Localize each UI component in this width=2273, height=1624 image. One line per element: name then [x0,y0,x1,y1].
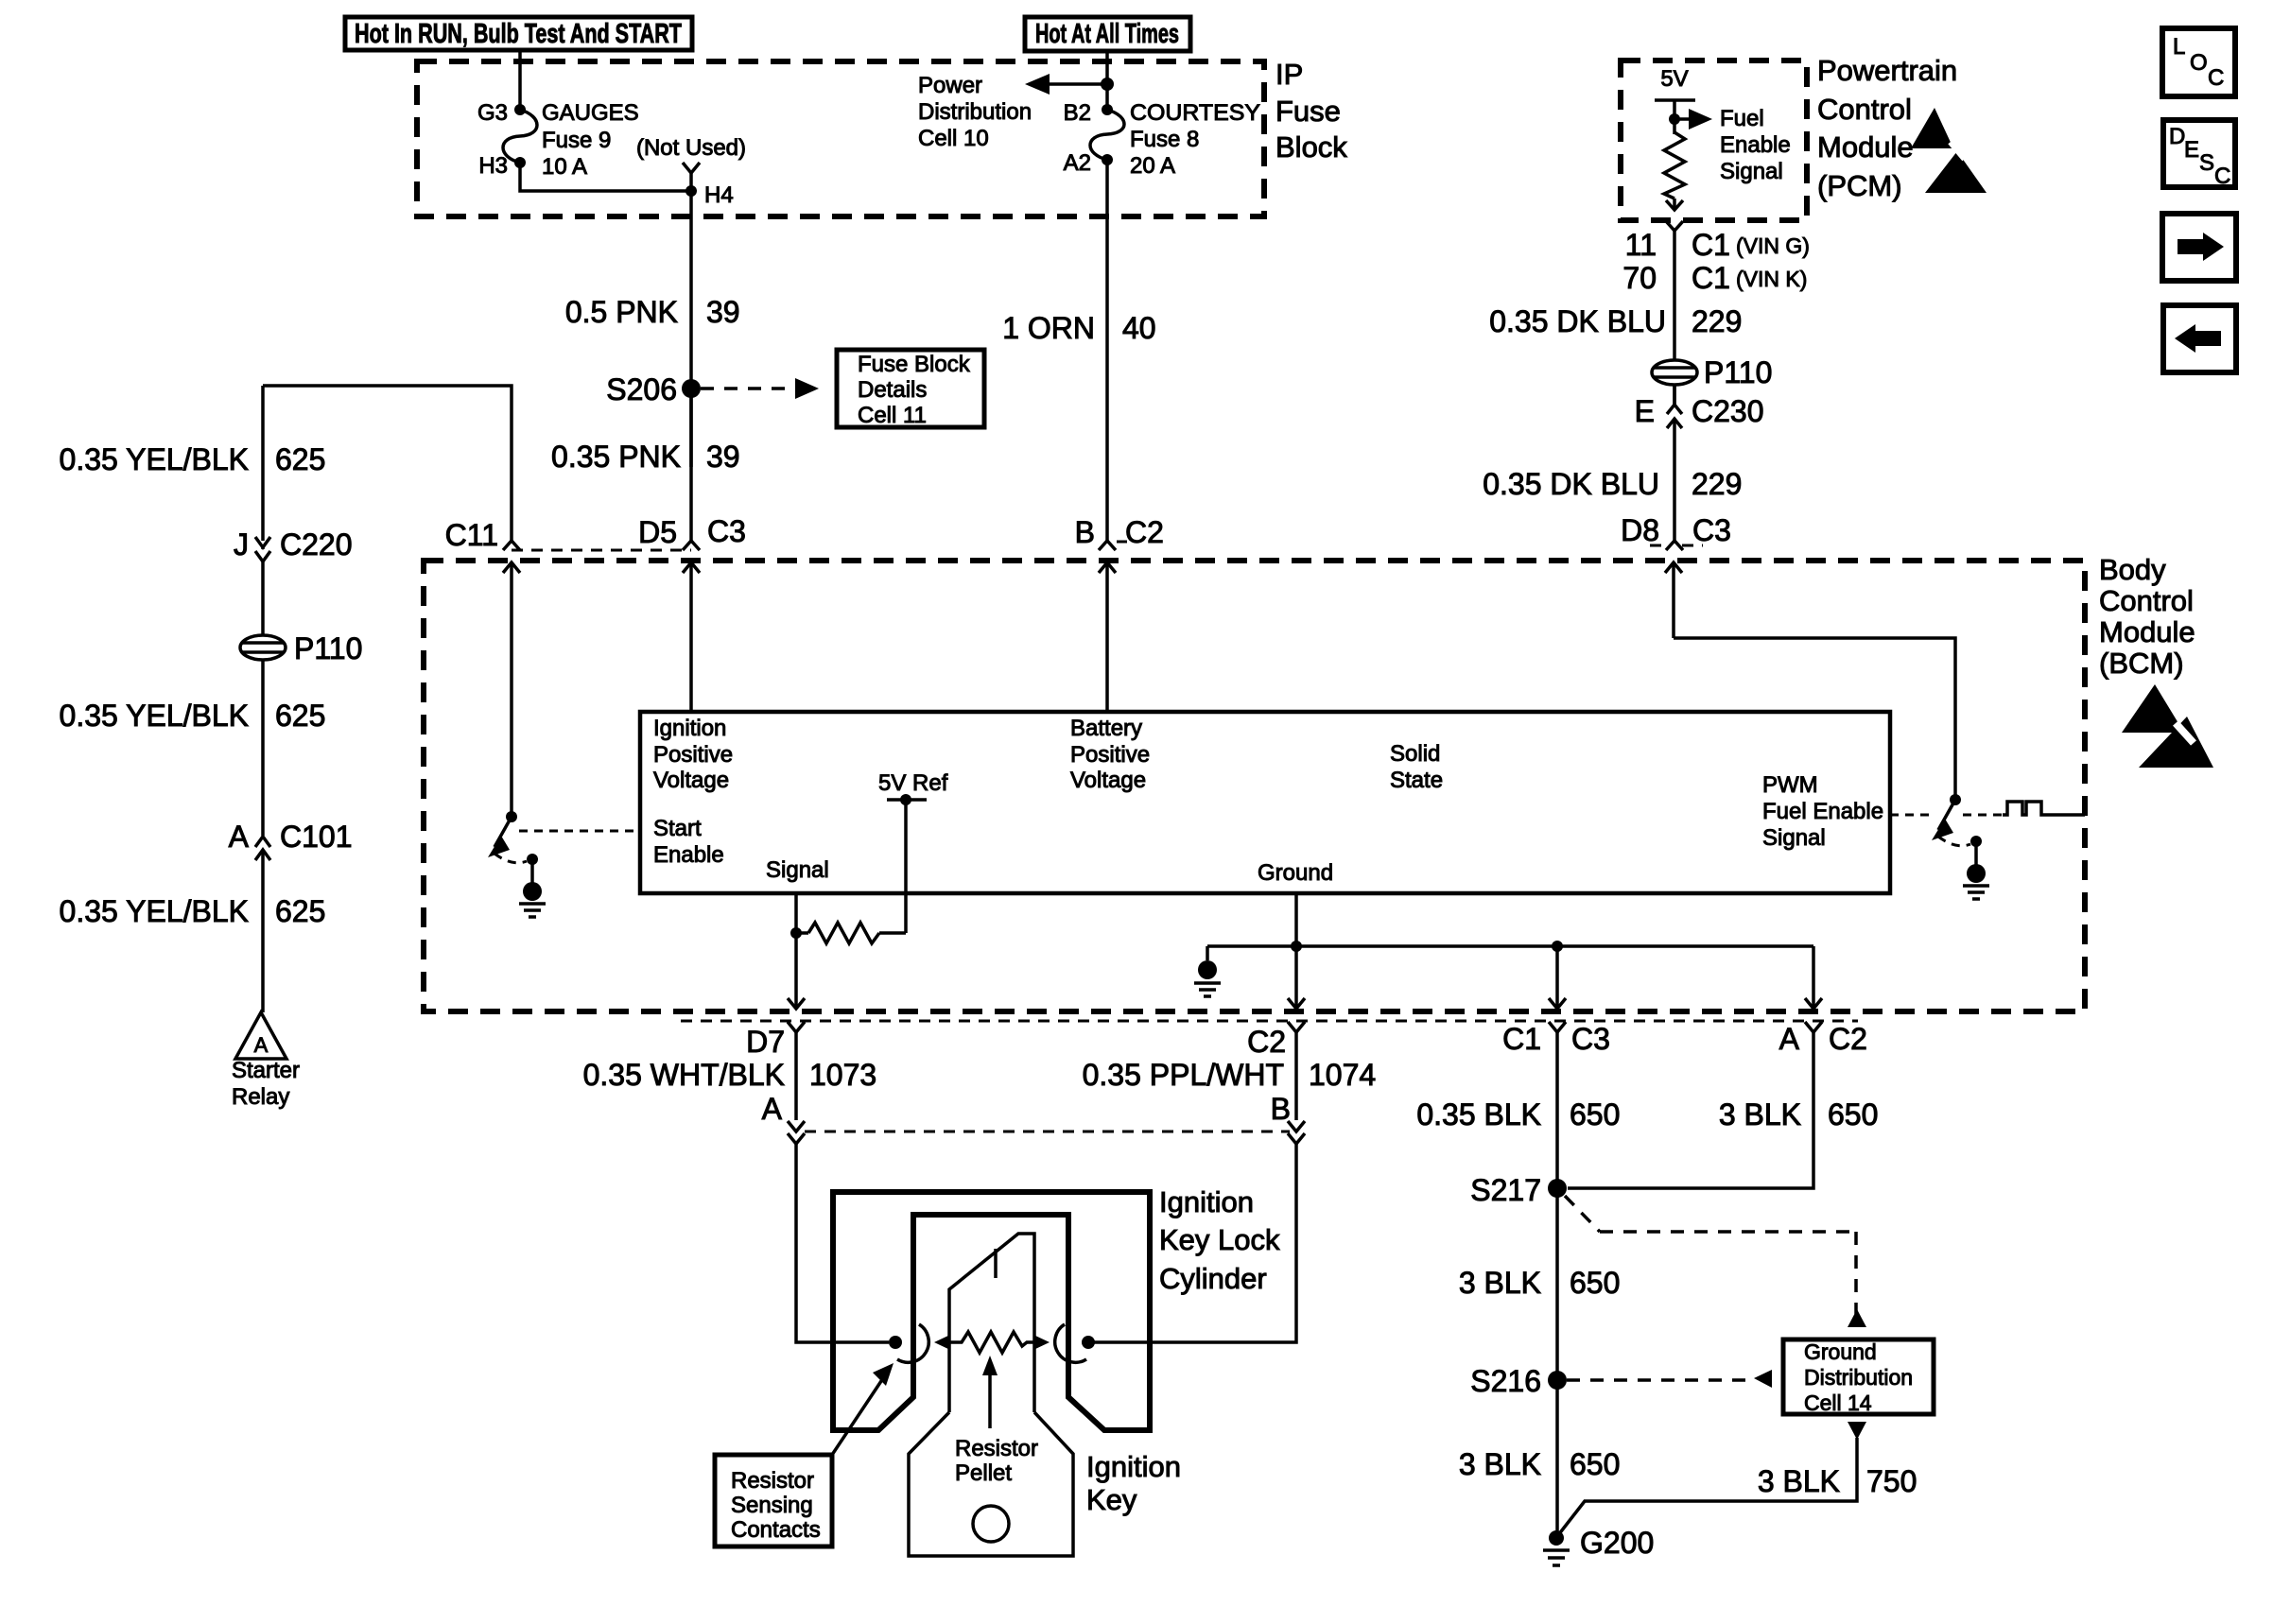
svg-text:Resistor: Resistor [731,1468,814,1494]
svg-text:1073: 1073 [809,1058,876,1092]
resistor signal pull-up [808,923,879,943]
label Resistor Pellet [955,1436,1038,1486]
wire ground pin down [1294,893,1298,1008]
svg-text:Details: Details [858,377,927,403]
grommet P110 left [240,635,286,660]
wire from H3 to H4 junction [520,163,691,191]
wire from Hot In RUN box to fuse 9 terminal G3 [518,50,522,110]
switch start enable [488,811,538,865]
leader S216 to ground distribution [1567,1370,1772,1388]
wire label 3 BLK 650 bottom [1459,1447,1621,1481]
connector fork B [1288,1133,1305,1144]
wire arrow into BCM at D8 [1665,562,1682,638]
wire signal pin down [794,893,798,1008]
svg-text:Module: Module [2099,615,2195,648]
svg-text:Ignition: Ignition [1159,1185,1254,1218]
wire B to contact [1094,1144,1296,1342]
header box: Hot At All Times [1025,17,1190,51]
svg-text:3 BLK: 3 BLK [1459,1266,1541,1300]
wire D8 to PWM switch [1674,638,1955,800]
svg-text:Cell 11: Cell 11 [858,403,927,428]
svg-text:(PCM): (PCM) [1817,169,1902,202]
svg-text:B2: B2 [1064,100,1091,126]
svg-text:C3: C3 [1571,1022,1610,1056]
connector line C3 thin dashed [512,549,691,552]
svg-text:C101: C101 [280,820,353,854]
connector fork A [788,1133,805,1144]
ESD symbol PCM [1911,108,1987,193]
wire 1 ORN from A2 to B [1105,160,1109,541]
wire 3 BLK from A to S217 [1568,1032,1813,1188]
splice S206 [682,379,701,398]
header box: Hot In RUN, Bulb Test And START [345,17,692,50]
arrow resistor pellet pointer [982,1356,998,1428]
connector fork A C2 [1805,1022,1822,1032]
label Start Enable [653,816,724,868]
svg-text:Block: Block [1275,130,1347,164]
wire P110 to C101 [261,659,265,836]
svg-text:Control: Control [2099,584,2194,617]
svg-text:C: C [2208,65,2224,91]
svg-text:O: O [2190,50,2208,76]
wire arrow Fuel Enable Signal [1674,109,1712,130]
fuse F9 GAUGES 10A [503,104,537,168]
svg-text:S217: S217 [1470,1173,1541,1207]
wire label 0.35 BLK 650 [1416,1097,1620,1132]
svg-text:39: 39 [706,295,740,329]
connector line below BCM thin dashed [681,1020,1858,1023]
svg-text:Ground: Ground [1804,1339,1877,1364]
svg-text:3 BLK: 3 BLK [1459,1447,1541,1481]
control dashed start enable [519,830,640,833]
PCM dashed box [1621,60,1807,220]
BCM solid state box [640,712,1890,893]
svg-text:Ground: Ground [1258,860,1333,886]
connector fork B [1099,541,1116,550]
contact dot A side [889,1336,902,1349]
svg-text:A: A [762,1092,783,1126]
wire 0.5 PNK from H4 to S206 [689,191,693,467]
label Ignition Key [1086,1450,1181,1516]
svg-text:0.35 DK BLU: 0.35 DK BLU [1483,467,1659,501]
5V Ref bar [887,798,927,802]
label Ignition Positive Voltage [653,716,733,793]
contact dot B side [1082,1336,1095,1349]
label Body Control Module (BCM) [2099,553,2195,680]
nav icon DESC [2163,120,2235,189]
svg-text:650: 650 [1828,1097,1878,1132]
ESD symbol BCM [2122,684,2213,768]
svg-text:Hot In RUN, Bulb Test And STAR: Hot In RUN, Bulb Test And START [355,19,682,49]
svg-text:Distribution: Distribution [918,99,1032,125]
pin label D5 C3 [638,514,746,549]
resistor pellet [950,1332,1033,1353]
ground G200 [1543,1530,1570,1565]
svg-text:Control: Control [1817,93,1912,126]
nav icon arrow left [2163,305,2236,372]
svg-text:C1: C1 [1692,228,1730,262]
svg-text:S: S [2199,150,2214,176]
label Ignition Key Lock Cylinder [1159,1185,1280,1295]
PWM waveform [2003,802,2085,815]
svg-text:G3: G3 [477,100,508,126]
svg-text:D8: D8 [1621,513,1659,547]
pin label A C2 [1779,1022,1867,1056]
svg-text:C1: C1 [1692,261,1730,295]
svg-text:C2: C2 [1247,1025,1286,1059]
BCM dashed box [424,561,2085,1011]
svg-text:0.35 BLK: 0.35 BLK [1416,1097,1541,1132]
arrow ground at BCM edge [1288,998,1305,1009]
pin label 11 C1 (VIN G) [1625,228,1810,262]
svg-text:Ignition: Ignition [1086,1450,1181,1483]
5V supply bar [1655,98,1695,102]
svg-text:P110: P110 [294,631,362,665]
wire 0.35 PPL/WHT [1294,1032,1298,1120]
wire label 0.35 DK BLU 229 lower [1483,467,1742,501]
svg-text:1 ORN: 1 ORN [1002,311,1095,345]
label Powertrain Control Module (PCM) [1817,54,1957,202]
svg-text:11: 11 [1625,228,1657,262]
svg-text:(VIN G): (VIN G) [1736,233,1810,258]
svg-text:S206: S206 [606,372,677,406]
svg-text:C2: C2 [1125,515,1164,549]
wire A drop inside BCM [1812,946,1815,1008]
nav icon LOC [2162,28,2235,96]
svg-text:0.35 PNK: 0.35 PNK [551,440,681,474]
wire 0.35 PNK to D5 [689,389,693,541]
svg-text:Hot At All Times: Hot At All Times [1035,19,1179,49]
svg-text:10 A: 10 A [542,154,587,180]
svg-text:Fuel Enable: Fuel Enable [1762,799,1883,824]
pin label J C220 [234,527,353,561]
leader S206 to Fuse Block Details [701,378,819,399]
wire label 0.35 PNK 39 [551,440,740,474]
wire arrow into BCM at B [1099,562,1116,712]
contact hook right [1055,1324,1086,1362]
wire 5V ref to resistor [904,800,908,933]
wire label 0.35 YEL/BLK 625 (3) [60,894,326,928]
connector fork below PCM [1666,221,1683,231]
wire arrow to Power Distribution [1025,74,1107,95]
svg-text:PWM: PWM [1762,772,1818,798]
wire label 3 BLK 750 [1758,1464,1917,1498]
pin label A C101 [229,820,353,854]
connector fork D7 [788,1022,805,1032]
svg-text:229: 229 [1692,467,1742,501]
svg-text:C3: C3 [1692,513,1731,547]
svg-text:Fuel: Fuel [1720,106,1764,131]
wire label 0.35 PPL/WHT 1074 [1083,1058,1377,1092]
pin label 70 C1 (VIN K) [1622,261,1807,295]
wire PCM to C1 rows [1673,231,1676,405]
label Solid State [1390,741,1443,793]
ignition key lock cylinder housing [833,1192,1150,1430]
svg-text:5V: 5V [1660,66,1688,92]
svg-text:Solid: Solid [1390,741,1440,767]
leader S217 to ground distribution [1565,1196,1866,1327]
connector C230 inline [1667,385,1682,541]
svg-text:A2: A2 [1064,150,1091,176]
wire arrow into BCM at D5 [683,562,700,712]
svg-text:650: 650 [1570,1097,1620,1132]
svg-text:3 BLK: 3 BLK [1758,1464,1840,1498]
svg-text:625: 625 [275,442,325,476]
svg-text:E: E [2184,137,2199,163]
connector C220 [255,537,270,636]
pin label B C2 [1075,515,1164,549]
svg-text:IP: IP [1275,58,1303,91]
svg-text:Signal: Signal [1762,825,1826,851]
wire 0.35 BLK to S217 [1555,1032,1559,1380]
svg-text:Powertrain: Powertrain [1817,54,1957,87]
svg-text:Signal: Signal [766,857,829,883]
svg-text:Voltage: Voltage [653,768,729,793]
contact hook left [897,1324,928,1362]
svg-text:Sensing: Sensing [731,1493,813,1518]
node fuel enable branch [1669,113,1680,125]
ground symbol internal BCM [1194,960,1221,996]
svg-text:C230: C230 [1692,394,1764,428]
svg-text:Body: Body [2099,553,2166,586]
connector fork D8 [1666,541,1683,550]
svg-text:Contacts: Contacts [731,1517,821,1543]
svg-text:Cell 14: Cell 14 [1804,1391,1872,1415]
svg-text:P110: P110 [1704,355,1772,389]
wire 3 BLK from S216 to G200 [1555,1380,1559,1538]
IP Fuse Block dashed box [417,61,1264,216]
arrow B into key cylinder connector [1288,1121,1305,1132]
svg-text:D7: D7 [746,1025,785,1059]
svg-text:E: E [1635,394,1655,428]
svg-text:650: 650 [1570,1447,1620,1481]
pin label D8 C3 [1621,513,1731,547]
svg-text:H4: H4 [704,182,734,208]
arrow signal at BCM edge [788,998,805,1009]
svg-text:C11: C11 [445,518,498,552]
svg-text:C: C [2214,164,2230,189]
svg-text:A: A [254,1033,269,1057]
svg-text:(BCM): (BCM) [2099,647,2184,680]
label IP Fuse Block [1275,58,1347,164]
svg-text:A: A [229,820,250,854]
ground symbol below start enable switch [519,859,546,917]
svg-text:D5: D5 [638,515,677,549]
svg-text:H3: H3 [478,153,508,179]
svg-text:Key Lock: Key Lock [1159,1223,1280,1256]
wire top horizontal to C11 [263,386,512,541]
svg-text:State: State [1390,768,1443,793]
svg-text:Fuse 8: Fuse 8 [1130,127,1199,152]
wire label 3 BLK 650 middle [1459,1266,1621,1300]
svg-text:Enable: Enable [653,842,724,868]
svg-text:C1: C1 [1502,1022,1541,1056]
svg-text:650: 650 [1570,1266,1620,1300]
svg-text:B: B [1075,515,1095,549]
svg-text:Signal: Signal [1720,159,1783,184]
svg-text:Fuse Block: Fuse Block [858,352,971,377]
wire from Hot At All Times box to fuse 8 [1105,51,1109,110]
splice S217 [1548,1179,1567,1198]
connector fork C2 (BCM ground) [1288,1022,1305,1032]
svg-text:C2: C2 [1829,1022,1867,1056]
svg-text:Relay: Relay [232,1084,289,1110]
wire label 0.35 YEL/BLK 625 (1) [60,442,326,476]
reference box Ground Distribution Cell 14 [1783,1339,1934,1415]
nav icon arrow right [2162,214,2236,281]
svg-text:0.35 YEL/BLK: 0.35 YEL/BLK [60,894,249,928]
svg-text:Power: Power [918,73,982,98]
connector fork C1 C3 [1549,1022,1566,1032]
wire 0.35 WHT/BLK [794,1032,798,1120]
label PWM Fuel Enable Signal [1762,772,1883,851]
svg-text:Fuse: Fuse [1275,95,1341,128]
connector fork (Not Used) [683,163,700,173]
wire label 0.5 PNK 39 [565,295,740,329]
label Battery Positive Voltage [1070,716,1150,793]
svg-text:39: 39 [706,440,740,474]
svg-text:70: 70 [1622,261,1657,295]
svg-text:Fuse 9: Fuse 9 [542,128,611,153]
value label GAUGES Fuse 9 10 A [542,100,639,180]
ignition key blade and head [909,1234,1073,1556]
svg-text:(VIN K): (VIN K) [1736,267,1807,291]
svg-text:J: J [234,527,249,561]
arrow A at BCM edge [1805,998,1822,1009]
arrow below ground distribution box [1848,1422,1866,1440]
svg-text:625: 625 [275,699,325,733]
fuse F8 COURTESY 20A [1090,104,1124,165]
wire 5V to resistor [1673,100,1676,134]
wire label 0.35 YEL/BLK 625 (2) [60,699,326,733]
switch PWM fuel enable [1932,794,1982,847]
reference box Resistor Sensing Contacts [715,1455,832,1546]
svg-text:5V Ref: 5V Ref [878,770,948,796]
svg-text:3 BLK: 3 BLK [1719,1097,1801,1132]
svg-text:229: 229 [1692,304,1742,338]
svg-text:Positive: Positive [653,742,733,768]
svg-text:1074: 1074 [1309,1058,1376,1092]
svg-text:B: B [1271,1092,1291,1126]
wire label 1 ORN 40 [1002,311,1155,345]
svg-text:Cell 10: Cell 10 [918,126,989,151]
connector C101 [255,837,270,1012]
wire label 0.35 WHT/BLK 1073 [583,1058,877,1092]
svg-text:0.35 YEL/BLK: 0.35 YEL/BLK [60,442,249,476]
pin label C1 C3 [1502,1022,1610,1056]
wire resistor to PCM edge with chevrons [1666,199,1683,210]
ground bus inside BCM [1207,941,1813,960]
svg-text:L: L [2173,34,2185,60]
arrow resistor sensing contacts pointer [832,1363,894,1455]
wire arrow into BCM at C11 [503,562,520,817]
wire C1 drop inside BCM [1555,946,1559,1008]
wire A to contact [796,1144,889,1342]
svg-text:G200: G200 [1580,1526,1654,1560]
label Fuel Enable Signal [1720,106,1791,184]
contact arrow right [1033,1335,1050,1350]
node H4 [685,185,697,197]
svg-text:0.35 YEL/BLK: 0.35 YEL/BLK [60,699,249,733]
wire label 3 BLK 650 right [1719,1097,1879,1132]
svg-text:0.35 WHT/BLK: 0.35 WHT/BLK [583,1058,785,1092]
resistor PCM pull-up [1664,132,1685,199]
svg-text:40: 40 [1122,311,1156,345]
arrow A into key cylinder connector [788,1121,805,1132]
arrow C1 at BCM edge [1549,998,1566,1009]
svg-text:Starter: Starter [232,1058,300,1083]
svg-text:0.35 PPL/WHT: 0.35 PPL/WHT [1083,1058,1284,1092]
connector fork C11 [503,541,520,550]
reference box Fuse Block Details Cell 11 [837,350,984,428]
svg-text:Positive: Positive [1070,742,1150,768]
wire label 0.35 DK BLU 229 [1489,304,1742,338]
svg-text:Distribution: Distribution [1804,1365,1913,1390]
svg-text:Ignition: Ignition [653,716,726,741]
svg-text:A: A [1779,1022,1800,1056]
svg-text:0.5 PNK: 0.5 PNK [565,295,678,329]
svg-text:C3: C3 [707,514,746,548]
svg-text:20 A: 20 A [1130,153,1175,179]
starter relay triangle [235,1012,286,1059]
svg-text:Key: Key [1086,1483,1137,1516]
svg-text:(Not Used): (Not Used) [636,135,746,161]
connector line A-B thin dashed [805,1131,1290,1133]
value label COURTESY Fuse 8 20 A [1130,100,1260,179]
control dashed PWM [1890,814,1931,817]
svg-text:Module: Module [1817,130,1914,164]
wire 3 BLK 750 to G200 [1558,1438,1857,1535]
svg-text:Enable: Enable [1720,132,1791,158]
svg-text:750: 750 [1866,1464,1917,1498]
svg-text:COURTESY: COURTESY [1130,100,1260,126]
ground symbol below PWM switch [1963,841,1989,899]
svg-text:S216: S216 [1470,1364,1541,1398]
label Power Distribution Cell 10 [918,73,1032,151]
svg-text:D: D [2169,124,2185,149]
grommet P110 right [1652,360,1697,385]
connector fork D5 [683,541,700,550]
svg-text:Battery: Battery [1070,716,1142,741]
svg-text:0.35 DK BLU: 0.35 DK BLU [1489,304,1666,338]
contact arrow left [934,1335,950,1350]
svg-text:GAUGES: GAUGES [542,100,639,126]
svg-text:C220: C220 [280,527,353,561]
node: junction to power distribution arrow [1101,78,1114,91]
label Starter Relay [232,1058,300,1110]
svg-text:625: 625 [275,894,325,928]
svg-text:Start: Start [653,816,702,841]
pin label E C230 [1635,394,1764,428]
svg-text:Resistor: Resistor [955,1436,1038,1461]
svg-text:Cylinder: Cylinder [1159,1262,1267,1295]
splice S216 [1548,1371,1567,1390]
wire left vertical to starter relay [261,386,265,541]
svg-text:Voltage: Voltage [1070,768,1146,793]
svg-text:Pellet: Pellet [955,1460,1012,1486]
